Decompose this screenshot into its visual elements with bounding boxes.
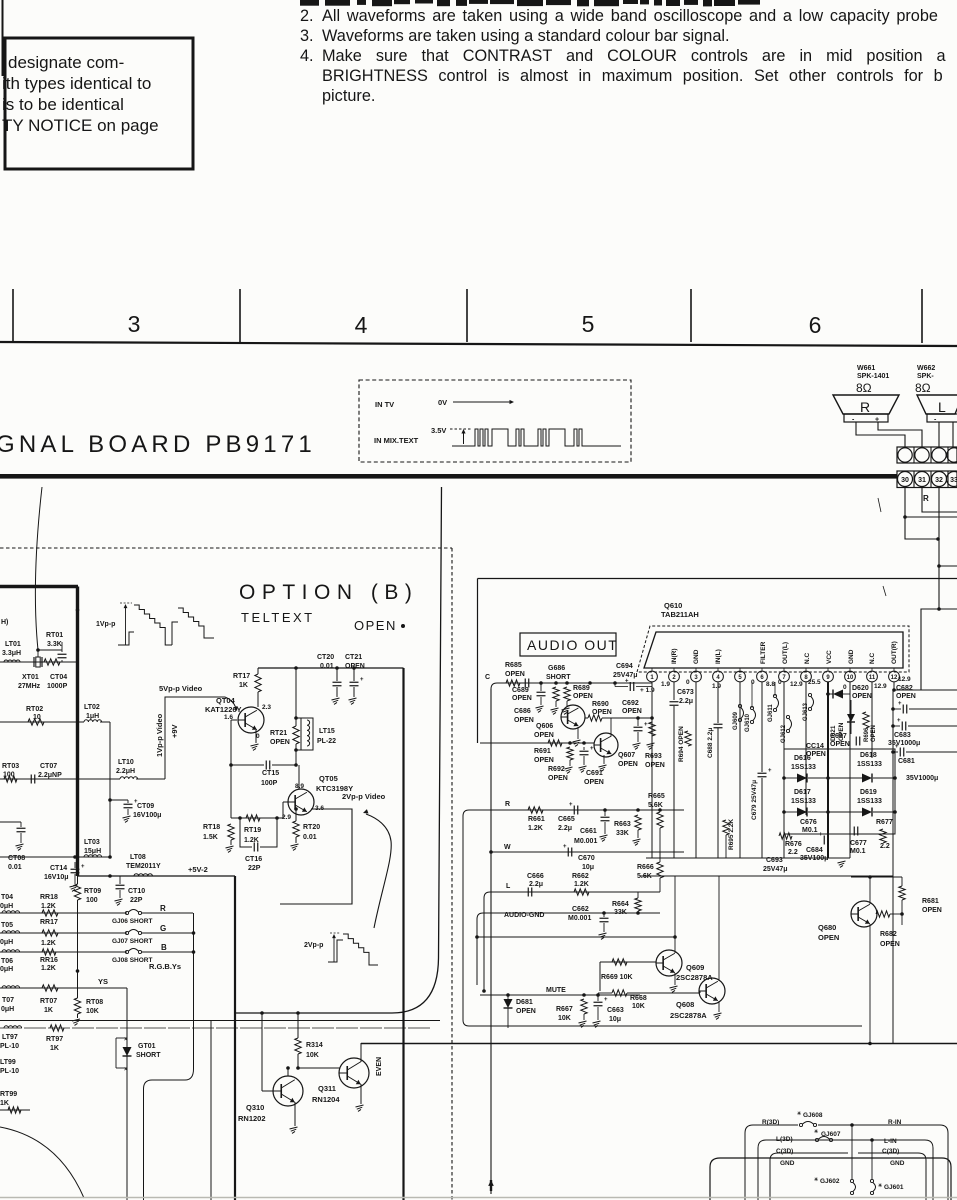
- svg-text:✳: ✳: [814, 1177, 819, 1183]
- transistor QT04: [205, 696, 264, 733]
- cut-off text smudge 'voltages reading may vary': [300, 0, 760, 6]
- svg-text:+ 1.9: + 1.9: [640, 687, 655, 694]
- wire LT02 down: [109, 722, 111, 857]
- svg-text:GND: GND: [848, 649, 855, 664]
- inductor LT08: [126, 854, 161, 876]
- capacitor C692: [622, 700, 648, 749]
- svg-text:33K: 33K: [616, 830, 629, 837]
- jumper GJ611: [768, 682, 779, 722]
- resistor R676: [779, 833, 802, 856]
- diode D618: [828, 752, 897, 783]
- staircase 1Vp-p label: [96, 621, 115, 628]
- wire row mute y995: [480, 993, 640, 997]
- svg-text:IN(R): IN(R): [671, 648, 678, 664]
- resistor R689: [562, 685, 593, 714]
- wire conn drop 872: [870, 1138, 874, 1179]
- svg-text:1K: 1K: [50, 1045, 59, 1052]
- heavy divider line: [0, 474, 897, 479]
- svg-text:RT99: RT99: [0, 1091, 17, 1098]
- label C693: [763, 857, 788, 873]
- resistor RT17: [233, 668, 261, 707]
- svg-text:2.2μ: 2.2μ: [529, 881, 543, 888]
- wire base row y818: [231, 816, 283, 820]
- resistor RT19: [244, 815, 261, 844]
- svg-text:SPK-1401: SPK-1401: [857, 373, 889, 380]
- svg-text:OPEN: OPEN: [514, 717, 534, 724]
- svg-text:32: 32: [935, 477, 943, 484]
- svg-text:CT04: CT04: [50, 674, 67, 681]
- svg-text:8.9: 8.9: [295, 783, 304, 790]
- left block border: [0, 587, 78, 877]
- svg-text:L: L: [506, 883, 511, 890]
- capacitor C683: [888, 718, 957, 747]
- svg-text:+: +: [81, 864, 85, 870]
- ground Q609: [670, 973, 678, 992]
- svg-text:22P: 22P: [130, 897, 143, 904]
- svg-text:0μH: 0μH: [0, 903, 13, 910]
- svg-text:G: G: [160, 924, 166, 933]
- label OPTION (B): [239, 581, 418, 604]
- svg-text:H): H): [1, 619, 8, 626]
- resistor R685: [505, 662, 525, 686]
- label G row: [160, 924, 166, 933]
- svg-text:+: +: [590, 746, 594, 752]
- wire QT04 base down: [229, 720, 237, 818]
- label OPEN: [354, 618, 405, 633]
- svg-text:Q606: Q606: [536, 723, 553, 730]
- inductor LT05: [0, 922, 20, 946]
- svg-text:5: 5: [738, 675, 742, 681]
- svg-text:CT09: CT09: [137, 803, 154, 810]
- svg-text:T05: T05: [1, 922, 13, 929]
- svg-text:L(3D): L(3D): [776, 1136, 793, 1143]
- wire row LT97: [0, 1027, 430, 1029]
- svg-text:10μ: 10μ: [609, 1016, 621, 1023]
- svg-text:4.: 4.: [300, 47, 314, 65]
- inductor LT97: [0, 1026, 22, 1050]
- note line 2: [300, 7, 938, 25]
- svg-text:RR18: RR18: [40, 894, 58, 901]
- staircase waveform B: [172, 608, 214, 645]
- svg-text:LT97: LT97: [2, 1034, 18, 1041]
- svg-text:C689: C689: [512, 687, 529, 694]
- svg-text:VCC: VCC: [826, 650, 833, 664]
- inductor LT04: [0, 894, 20, 913]
- resistor R669: [601, 959, 633, 981]
- legend 3.5V dash: [450, 428, 471, 430]
- label H): [1, 619, 8, 626]
- svg-text:C691: C691: [586, 770, 603, 777]
- svg-text:TEM2011Y: TEM2011Y: [126, 863, 161, 870]
- svg-text:OPEN: OPEN: [534, 732, 554, 739]
- svg-text:C679 25V47μ: C679 25V47μ: [751, 780, 758, 820]
- ruler tick e: [921, 289, 923, 343]
- svg-text:R682: R682: [880, 931, 897, 938]
- svg-text:1000P: 1000P: [47, 683, 68, 690]
- svg-text:T06: T06: [1, 958, 13, 965]
- wire speaker R+ to pin31: [878, 422, 922, 447]
- svg-text:10: 10: [33, 714, 41, 721]
- svg-text:GJ611: GJ611: [768, 704, 774, 722]
- svg-text:SPK-: SPK-: [917, 373, 934, 380]
- wire Q680 collector: [868, 875, 872, 904]
- IC pins 1-12: [647, 668, 900, 682]
- svg-text:R696: R696: [864, 727, 870, 742]
- legend label 3.5V: [431, 426, 446, 435]
- svg-text:1SS133: 1SS133: [857, 761, 882, 768]
- svg-text:12.9: 12.9: [898, 676, 911, 683]
- label W rail: [504, 844, 511, 851]
- svg-text:QT05: QT05: [319, 774, 338, 783]
- svg-text:1.2K: 1.2K: [244, 837, 259, 844]
- svg-text:OUT(R): OUT(R): [891, 641, 898, 664]
- svg-text:N.C: N.C: [869, 653, 876, 665]
- svg-text:R667: R667: [556, 1006, 573, 1013]
- scan mark mid: [883, 586, 886, 596]
- svg-text:OPEN: OPEN: [573, 693, 593, 700]
- staircase waveform A: [118, 605, 172, 645]
- jumper GJ613: [803, 693, 814, 721]
- bold bus x403: [402, 668, 404, 1200]
- capacitor C676: [800, 819, 818, 834]
- svg-text:C(3D): C(3D): [776, 1148, 793, 1155]
- label R(3D): [762, 1119, 779, 1126]
- svg-text:PL-10: PL-10: [0, 1068, 19, 1075]
- svg-text:picture.: picture.: [322, 87, 375, 105]
- svg-text:RT97: RT97: [46, 1036, 63, 1043]
- staircase arrow: [120, 603, 132, 645]
- left rail x463: [463, 810, 469, 1026]
- capacitor C661: [574, 810, 610, 845]
- svg-text:R695 2.2K: R695 2.2K: [728, 819, 735, 850]
- inductor LT01: [2, 641, 21, 662]
- svg-text:R685: R685: [505, 662, 522, 669]
- svg-text:10μ: 10μ: [582, 864, 594, 871]
- svg-text:12.9: 12.9: [790, 681, 803, 688]
- svg-text:11: 11: [869, 675, 876, 681]
- svg-text:25.5: 25.5: [808, 679, 821, 686]
- connector mid body: [758, 1140, 933, 1200]
- svg-text:1.2K: 1.2K: [41, 903, 56, 910]
- svg-text:R676: R676: [785, 841, 802, 848]
- staircase waveform 2: [328, 934, 378, 965]
- svg-text:CT10: CT10: [128, 888, 145, 895]
- jumper GJ607: [814, 1129, 841, 1142]
- note line 4 end: [322, 87, 375, 105]
- wire row y662: [0, 661, 78, 663]
- svg-text:GT01: GT01: [138, 1043, 156, 1050]
- diode D681: [504, 995, 536, 1028]
- svg-text:8.8: 8.8: [766, 681, 775, 688]
- svg-text:0.01: 0.01: [320, 663, 334, 670]
- svg-text:OPEN: OPEN: [354, 618, 397, 633]
- svg-text:R664: R664: [612, 901, 629, 908]
- svg-text:OPEN: OPEN: [922, 907, 942, 914]
- svg-text:0: 0: [256, 733, 260, 740]
- svg-text:GND: GND: [693, 649, 700, 664]
- wire +5V-2 row: [78, 874, 236, 878]
- svg-text:2Vp-p Video: 2Vp-p Video: [342, 792, 386, 801]
- svg-text:16V100μ: 16V100μ: [133, 812, 161, 819]
- svg-text:OPEN: OPEN: [622, 708, 642, 715]
- IC Q610 labels: [661, 601, 699, 619]
- resistor RT97: [46, 1025, 64, 1052]
- resistor R696: [863, 712, 877, 742]
- resistor R314: [295, 1011, 323, 1068]
- svg-text:B: B: [161, 943, 167, 952]
- svg-text:OPEN: OPEN: [584, 779, 604, 786]
- svg-text:2SC2878A: 2SC2878A: [670, 1011, 707, 1020]
- svg-text:CT16: CT16: [245, 856, 262, 863]
- capacitor C687: [830, 733, 860, 748]
- svg-text:33: 33: [950, 477, 957, 484]
- svg-text:2.2μ: 2.2μ: [679, 698, 693, 705]
- svg-text:M0.001: M0.001: [574, 838, 597, 845]
- capacitor C689a: [512, 679, 532, 703]
- svg-text:4: 4: [355, 312, 368, 338]
- svg-text:R: R: [860, 399, 870, 415]
- svg-text:CT20: CT20: [317, 654, 334, 661]
- inductor LT03: [84, 839, 102, 857]
- svg-text:GNAL BOARD PB9171: GNAL BOARD PB9171: [0, 431, 316, 458]
- svg-text:OPEN: OPEN: [618, 761, 638, 768]
- ruler tick b: [239, 289, 241, 342]
- ruler tick a: [12, 289, 14, 342]
- svg-text:FILTER: FILTER: [760, 641, 767, 664]
- svg-text:0: 0: [843, 684, 847, 691]
- svg-text:2: 2: [672, 675, 676, 681]
- diode GT01: [116, 1037, 161, 1073]
- svg-text:RT20: RT20: [303, 824, 320, 831]
- speaker W662 symbol: [917, 395, 957, 424]
- svg-text:L: L: [938, 399, 946, 415]
- wire row B: [0, 951, 193, 953]
- junction dot: [76, 608, 80, 612]
- QT04 base arrow: [225, 697, 238, 711]
- svg-text:R: R: [160, 904, 166, 913]
- label R.G.B.Ys: [149, 962, 181, 971]
- capacitor C662: [568, 906, 609, 939]
- svg-text:RT18: RT18: [203, 824, 220, 831]
- svg-text:R668: R668: [630, 995, 647, 1002]
- svg-text:3.3K: 3.3K: [47, 641, 62, 648]
- svg-text:10K: 10K: [86, 1008, 99, 1015]
- transistor Q608: [670, 978, 725, 1020]
- wire row W audio: [491, 851, 684, 853]
- svg-text:3.3μH: 3.3μH: [2, 650, 21, 657]
- ground y858: [838, 861, 846, 867]
- svg-text:10K: 10K: [558, 1015, 571, 1022]
- svg-text:RR16: RR16: [40, 957, 58, 964]
- svg-text:1Vp-p: 1Vp-p: [96, 621, 115, 628]
- resistor R666: [637, 852, 663, 892]
- inductor LT07: [1, 986, 20, 1013]
- svg-text:100: 100: [3, 772, 15, 779]
- svg-text:R: R: [923, 494, 929, 503]
- wire bottom y858: [646, 857, 850, 859]
- wire row y857: [0, 855, 112, 859]
- capacitor C663: [593, 995, 624, 1027]
- svg-text:GJ602: GJ602: [820, 1178, 840, 1185]
- svg-text:G686: G686: [548, 665, 565, 672]
- svg-text:W: W: [504, 844, 511, 851]
- svg-text:R314: R314: [306, 1042, 323, 1049]
- capacitor C682: [893, 685, 957, 714]
- notice box: [5, 38, 193, 169]
- wire row y743: [480, 741, 594, 745]
- svg-text:✳: ✳: [814, 1129, 819, 1135]
- svg-text:1K: 1K: [44, 1007, 53, 1014]
- junction dot RGB: [76, 969, 80, 973]
- svg-text:D617: D617: [794, 789, 811, 796]
- wire RGB bus: [144, 913, 196, 1200]
- label C rail: [485, 674, 490, 681]
- svg-text:+: +: [897, 718, 901, 724]
- svg-text:M0.1: M0.1: [802, 827, 818, 834]
- capacitor CT09: [108, 798, 161, 822]
- wire pin30 down: [905, 488, 940, 541]
- connector R line: [745, 1125, 948, 1200]
- svg-text:LT10: LT10: [118, 759, 134, 766]
- svg-text:IN MIX.TEXT: IN MIX.TEXT: [374, 436, 419, 445]
- ruler tick c: [466, 289, 468, 342]
- svg-text:RT02: RT02: [26, 706, 43, 713]
- label TELTEXT: [241, 610, 315, 625]
- resistor RT18: [203, 824, 234, 852]
- svg-text:D618: D618: [860, 752, 877, 759]
- svg-text:Q607: Q607: [618, 752, 635, 759]
- svg-text:Waveforms are taken using a st: Waveforms are taken using a standard col…: [322, 27, 730, 45]
- IC pin names: [671, 641, 898, 664]
- svg-text:RN1204: RN1204: [312, 1095, 340, 1104]
- svg-text:C677: C677: [850, 840, 867, 847]
- svg-text:GJ612: GJ612: [781, 724, 787, 743]
- svg-text:ith types identical to: ith types identical to: [2, 74, 151, 93]
- diode D619: [828, 789, 897, 817]
- svg-text:Q609: Q609: [686, 963, 704, 972]
- label MUTE: [546, 987, 566, 994]
- wire Q310 collector: [286, 1066, 290, 1076]
- svg-text:CT21: CT21: [345, 654, 362, 661]
- svg-text:R681: R681: [922, 898, 939, 905]
- svg-text:D616: D616: [794, 755, 811, 762]
- svg-text:OPEN: OPEN: [270, 739, 290, 746]
- svg-text:OPEN: OPEN: [830, 741, 850, 748]
- svg-text:C684: C684: [806, 847, 823, 854]
- svg-text:RT09: RT09: [84, 888, 101, 895]
- audio block top border: [478, 578, 957, 580]
- svg-text:RT03: RT03: [2, 763, 19, 770]
- capacitor C677: [850, 827, 867, 856]
- svg-text:Q610: Q610: [664, 601, 682, 610]
- svg-text:1.2K: 1.2K: [41, 965, 56, 972]
- connector top row: [897, 447, 957, 463]
- svg-text:OPEN: OPEN: [880, 941, 900, 948]
- legend label 0V: [438, 398, 447, 407]
- svg-text:R690: R690: [592, 701, 609, 708]
- wire RT01 top link: [38, 650, 62, 657]
- speaker W662 labels: [915, 365, 935, 395]
- wire Q311 collector: [360, 1043, 362, 1062]
- transistor Q609: [656, 950, 713, 982]
- wire branch y566: [939, 565, 957, 567]
- resistor RT02: [26, 706, 44, 725]
- svg-text:+: +: [898, 701, 902, 707]
- label L rail: [506, 883, 511, 890]
- svg-text:2Vp-p: 2Vp-p: [304, 942, 323, 949]
- svg-text:5: 5: [582, 311, 595, 337]
- svg-text:GND: GND: [890, 1160, 905, 1167]
- capacitor C691: [579, 746, 604, 786]
- diode D617: [782, 789, 830, 817]
- svg-text:GJ613: GJ613: [803, 702, 809, 721]
- svg-text:R666: R666: [637, 864, 654, 871]
- svg-text:4: 4: [716, 675, 720, 681]
- QT05 pin voltages: [282, 783, 324, 821]
- svg-text:+: +: [768, 768, 772, 774]
- svg-text:CT14: CT14: [50, 865, 67, 872]
- svg-text:LT03: LT03: [84, 839, 100, 846]
- capacitor C688: [707, 724, 723, 858]
- resistor R661: [528, 807, 545, 832]
- svg-text:C688 2.2μ: C688 2.2μ: [707, 728, 714, 758]
- svg-text:7: 7: [782, 675, 786, 681]
- wire pin12 out: [892, 688, 957, 692]
- svg-text:35V1000μ: 35V1000μ: [906, 775, 938, 782]
- capacitor C666: [527, 873, 544, 897]
- svg-text:×: ×: [124, 1067, 128, 1073]
- ruler baseline: [0, 342, 957, 346]
- title SIGNAL BOARD PB9171: [0, 431, 316, 458]
- transistor Q606: [534, 705, 585, 739]
- svg-text:100P: 100P: [261, 780, 278, 787]
- svg-text:3: 3: [128, 311, 141, 337]
- staircase 2Vp-p label: [304, 942, 323, 949]
- jumper GJ608: [797, 1111, 823, 1127]
- svg-text:+: +: [644, 722, 648, 728]
- svg-text:12: 12: [891, 675, 898, 681]
- resistor R692: [548, 747, 573, 782]
- label GND right: [890, 1160, 905, 1167]
- svg-text:0: 0: [686, 679, 690, 686]
- svg-text:C663: C663: [607, 1007, 624, 1014]
- wire Q310 base riser: [260, 1011, 273, 1091]
- wire video riser: [165, 697, 225, 779]
- svg-text:R-IN: R-IN: [888, 1119, 902, 1126]
- wire row y963: [600, 962, 656, 991]
- resistor RT08: [72, 998, 103, 1025]
- resistor RT09: [74, 876, 101, 998]
- svg-text:OPEN: OPEN: [871, 725, 877, 742]
- svg-text:OPEN: OPEN: [516, 1008, 536, 1015]
- resistor G686: [546, 665, 571, 714]
- legend label IN TV: [375, 400, 394, 409]
- ground Q608: [714, 1001, 722, 1019]
- svg-text:1.2K: 1.2K: [528, 825, 543, 832]
- label B row: [161, 943, 167, 952]
- svg-text:LT02: LT02: [84, 704, 100, 711]
- connector outer body: [710, 1158, 951, 1200]
- label +5V-2: [188, 865, 208, 874]
- crystal XT01: [18, 648, 42, 690]
- svg-text:TAB211AH: TAB211AH: [661, 610, 699, 619]
- resistor R677: [876, 819, 893, 850]
- svg-text:GND: GND: [780, 1160, 795, 1167]
- ground Q607: [599, 755, 607, 771]
- wire conn drop 852: [850, 1123, 854, 1179]
- svg-text:C(3D): C(3D): [882, 1148, 899, 1155]
- inductor LT06: [0, 950, 20, 973]
